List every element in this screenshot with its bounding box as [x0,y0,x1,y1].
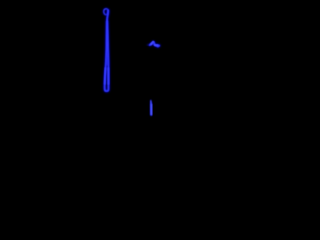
squiggle light-trail bright knot on first stroke [151,42,153,44]
squiggle light-trail (glow) [150,42,160,46]
wire main light-trail: centre filler where strands overlap (upper half) [106,20,108,65]
wire main light-trail: small loop like a 9 (outer glow) [104,9,108,15]
wire main light-trail: small loop like a 9 (core) [104,9,108,15]
wire main light-trail: bottom strand reinforcements [105,68,109,84]
squiggle light-trail (core) [150,42,160,46]
squiggle light-trail faint left tail [147,44,150,46]
squiggle light-trail bright second blob [155,44,157,47]
wire main light-trail: long hairpin stem, down-stroke with U turn and up-stroke (core) [105,10,109,91]
short bar light-trail with pointed tip (glow) [150,101,152,115]
short bar light-trail with pointed tip (core) [150,100,153,114]
wire main light-trail: long hairpin stem, down-stroke with U turn and up-stroke (outer glow) [105,10,109,91]
